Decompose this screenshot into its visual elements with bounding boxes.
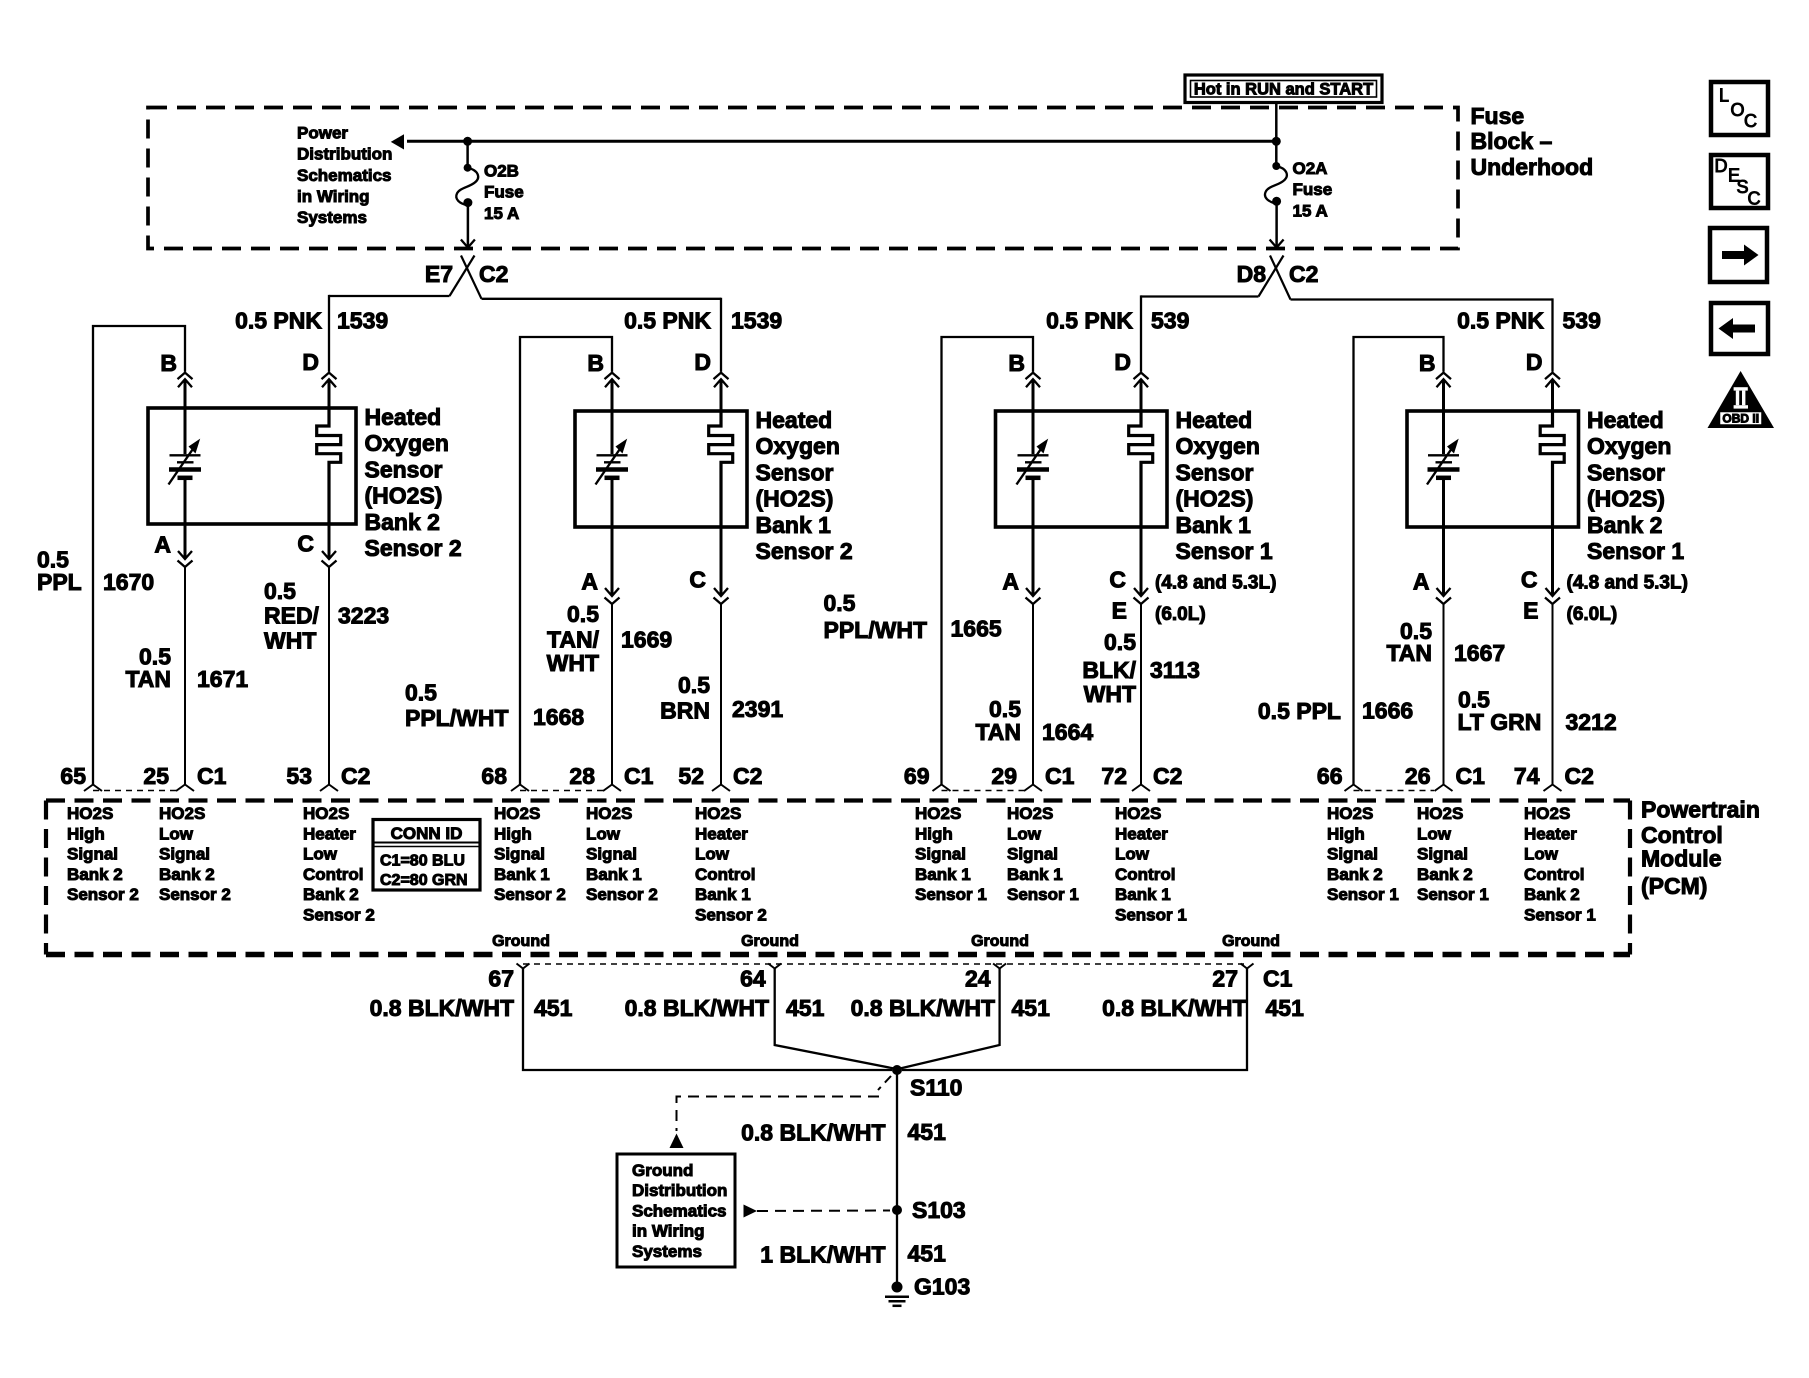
svg-text:Ground: Ground: [741, 933, 799, 950]
svg-text:(4.8 and 5.3L): (4.8 and 5.3L): [1155, 572, 1276, 593]
svg-text:PPL/WHT: PPL/WHT: [405, 705, 509, 731]
PCM pin 29 connector: [991, 763, 1074, 791]
PCM pin function text at x=1417: [1417, 804, 1489, 904]
svg-text:HO2S: HO2S: [1417, 804, 1463, 823]
svg-text:E: E: [1523, 598, 1538, 624]
svg-text:0.8 BLK/WHT: 0.8 BLK/WHT: [1102, 995, 1246, 1021]
svg-text:0.5 PPL: 0.5 PPL: [1258, 698, 1341, 724]
svg-text:539: 539: [1151, 308, 1189, 334]
Powertrain Control Module label: [1641, 797, 1760, 899]
PCM pin function text at x=586: [586, 804, 658, 904]
svg-text:Bank 1: Bank 1: [494, 865, 550, 884]
svg-text:D: D: [1526, 349, 1543, 375]
svg-text:S110: S110: [910, 1074, 962, 1100]
dashed reference box to S103: [744, 1205, 891, 1218]
icon LOC: [1711, 82, 1768, 135]
dashed link pin 69-29: [942, 790, 1025, 792]
wire 0.5 PNK 539 right branch to g4 D: [1291, 298, 1553, 371]
svg-text:Schematics: Schematics: [297, 166, 392, 185]
wire from Hot box to power line: [1275, 103, 1278, 142]
svg-text:1667: 1667: [1454, 640, 1505, 666]
terminal C group 1: [297, 524, 336, 785]
svg-text:O2A: O2A: [1293, 159, 1328, 178]
svg-text:Low: Low: [159, 824, 194, 843]
svg-text:Bank 1: Bank 1: [1007, 865, 1063, 884]
svg-text:in Wiring: in Wiring: [297, 187, 370, 206]
svg-text:C2: C2: [479, 261, 508, 287]
svg-text:(HO2S): (HO2S): [1587, 486, 1665, 512]
terminal B group 3: [1008, 350, 1040, 411]
svg-text:LT GRN: LT GRN: [1458, 709, 1542, 735]
svg-text:C1: C1: [197, 763, 227, 789]
sensor group 2 label: [756, 407, 853, 564]
svg-text:C: C: [689, 567, 706, 593]
svg-text:24: 24: [965, 966, 991, 992]
svg-text:Sensor 1: Sensor 1: [1007, 885, 1079, 904]
connector splice E7/C2: [425, 256, 509, 299]
svg-text:0.5: 0.5: [567, 601, 599, 627]
svg-text:0.5: 0.5: [264, 578, 296, 604]
svg-text:HO2S: HO2S: [1007, 804, 1053, 823]
svg-text:Sensor 2: Sensor 2: [494, 885, 566, 904]
svg-text:Bank 1: Bank 1: [756, 512, 832, 538]
terminal A group 3: [1002, 527, 1040, 785]
svg-text:Sensor 2: Sensor 2: [695, 906, 767, 925]
svg-text:72: 72: [1101, 763, 1127, 789]
svg-text:C1: C1: [624, 763, 654, 789]
dashed link pin 65-25: [93, 790, 176, 792]
svg-text:Bank 2: Bank 2: [1417, 865, 1473, 884]
icon left arrow: [1711, 303, 1768, 354]
svg-text:Sensor 1: Sensor 1: [1587, 538, 1684, 564]
fuse block underhood dashed box: [148, 108, 1458, 249]
terminal B group 2: [587, 350, 619, 411]
svg-text:TAN: TAN: [1386, 640, 1432, 666]
svg-text:Sensor 1: Sensor 1: [1524, 906, 1596, 925]
svg-text:PPL/WHT: PPL/WHT: [824, 617, 928, 643]
PCM pin function text at x=1115: [1115, 804, 1187, 925]
fuse O2A 15A: [1265, 141, 1287, 247]
svg-text:Heated: Heated: [1176, 407, 1253, 433]
svg-text:HO2S: HO2S: [695, 804, 741, 823]
svg-text:D8: D8: [1237, 261, 1267, 287]
svg-text:Heater: Heater: [1524, 824, 1577, 843]
wire S110 to S103: [896, 1070, 898, 1210]
HO2S sensor box group 4: [1407, 411, 1579, 527]
svg-text:451: 451: [908, 1240, 947, 1266]
HO2S sensor box group 2: [575, 411, 747, 527]
PCM pin 72 connector: [1101, 763, 1182, 791]
ground wire pin 24: [900, 969, 1000, 1069]
svg-text:68: 68: [481, 763, 507, 789]
svg-text:1671: 1671: [197, 666, 248, 692]
svg-text:HO2S: HO2S: [586, 804, 632, 823]
svg-text:Oxygen: Oxygen: [1587, 433, 1671, 459]
sensor element (variable cell) group 3: [1017, 411, 1050, 527]
label 0.5 PNK 1539 (g2): [624, 308, 782, 334]
svg-text:Hot in RUN and START: Hot in RUN and START: [1194, 81, 1373, 99]
svg-text:0.5: 0.5: [824, 590, 856, 616]
svg-text:67: 67: [488, 966, 514, 992]
svg-text:451: 451: [908, 1119, 947, 1145]
svg-text:Ground: Ground: [1222, 933, 1280, 950]
svg-text:BRN: BRN: [660, 697, 710, 723]
PCM pin function text at x=303: [303, 804, 375, 925]
svg-text:Bank 1: Bank 1: [695, 885, 751, 904]
PCM pin function text at x=67: [67, 804, 139, 904]
svg-text:C: C: [1744, 111, 1757, 131]
icon OBD II triangle: [1708, 371, 1775, 428]
Hot in RUN and START box: [1185, 75, 1382, 103]
svg-text:Signal: Signal: [586, 845, 637, 864]
svg-text:Low: Low: [303, 845, 338, 864]
PCM pin 25 connector: [143, 763, 226, 791]
svg-text:25: 25: [143, 763, 169, 789]
svg-text:HO2S: HO2S: [1115, 804, 1161, 823]
svg-text:C1: C1: [1456, 763, 1486, 789]
label 0.5 PPL/WHT 1668 (g2 high): [405, 680, 584, 731]
svg-text:O: O: [1731, 100, 1745, 120]
svg-text:C: C: [1748, 188, 1761, 208]
svg-text:HO2S: HO2S: [303, 804, 349, 823]
svg-text:Oxygen: Oxygen: [365, 430, 449, 456]
PCM dashed box: [46, 801, 1630, 955]
svg-text:Control: Control: [695, 865, 755, 884]
splice S110: [892, 1065, 962, 1100]
svg-text:A: A: [581, 569, 598, 595]
svg-text:Sensor 1: Sensor 1: [1417, 885, 1489, 904]
svg-text:Bank 1: Bank 1: [586, 865, 642, 884]
svg-text:Block –: Block –: [1471, 128, 1553, 154]
sensor element (variable cell) group 4: [1427, 411, 1460, 527]
svg-text:1668: 1668: [533, 704, 584, 730]
svg-text:C1: C1: [1045, 763, 1075, 789]
svg-text:0.8 BLK/WHT: 0.8 BLK/WHT: [370, 995, 514, 1021]
label 0.5 TAN/WHT 1669 (g2 low): [547, 601, 673, 676]
svg-text:0.5 PNK: 0.5 PNK: [235, 308, 322, 334]
svg-text:Distribution: Distribution: [632, 1181, 727, 1200]
svg-text:(HO2S): (HO2S): [756, 486, 834, 512]
svg-text:26: 26: [1405, 763, 1431, 789]
label 0.5 PNK 539 (g4): [1457, 308, 1601, 334]
svg-text:451: 451: [1012, 995, 1051, 1021]
svg-text:WHT: WHT: [264, 628, 316, 654]
wire 0.5 PNK 1539 right branch to g2 D: [482, 298, 722, 372]
svg-text:C2: C2: [341, 763, 370, 789]
icon DESC: [1711, 155, 1768, 208]
svg-text:0.5 PNK: 0.5 PNK: [1046, 308, 1133, 334]
svg-text:HO2S: HO2S: [159, 804, 205, 823]
svg-text:Fuse: Fuse: [1471, 103, 1525, 129]
svg-text:0.5: 0.5: [678, 672, 710, 698]
svg-text:(HO2S): (HO2S): [365, 483, 443, 509]
svg-text:27: 27: [1212, 966, 1238, 992]
label 0.5 PNK 1539 (g1): [235, 308, 388, 334]
label 0.5 BLK/WHT 3113 (g3 heater): [1082, 629, 1200, 707]
svg-text:Heated: Heated: [1587, 407, 1664, 433]
svg-text:High: High: [67, 824, 105, 843]
svg-text:Control: Control: [1641, 822, 1723, 848]
svg-text:Sensor: Sensor: [756, 459, 834, 485]
junction dot at O2A fuse tap: [1272, 137, 1281, 146]
svg-text:451: 451: [534, 995, 573, 1021]
svg-text:Low: Low: [586, 824, 621, 843]
svg-text:WHT: WHT: [547, 650, 599, 676]
terminal D group 1: [302, 349, 336, 408]
svg-text:15 A: 15 A: [1293, 201, 1328, 220]
PCM pin function text at x=1007: [1007, 804, 1079, 904]
svg-text:(HO2S): (HO2S): [1176, 486, 1254, 512]
wire S103 to G103: [896, 1210, 898, 1287]
sensor element (variable cell) group 1: [169, 408, 202, 524]
terminal B group 1: [160, 350, 192, 408]
svg-text:Underhood: Underhood: [1471, 154, 1594, 180]
signal high loop wire group 1: [93, 326, 185, 785]
svg-text:O2B: O2B: [484, 162, 519, 181]
svg-text:WHT: WHT: [1084, 681, 1136, 707]
PCM pin function text at x=695: [695, 804, 767, 925]
svg-text:Heated: Heated: [365, 404, 442, 430]
PCM pin 67 connector: [488, 964, 529, 992]
dashed link ground pins: [523, 963, 1247, 965]
svg-text:Bank 2: Bank 2: [1524, 885, 1580, 904]
svg-text:Bank 2: Bank 2: [67, 865, 123, 884]
sensor group 4 label: [1587, 407, 1684, 564]
svg-text:Low: Low: [1007, 824, 1042, 843]
svg-text:Signal: Signal: [915, 845, 966, 864]
svg-text:D: D: [1715, 156, 1728, 176]
svg-text:C1=80 BLU: C1=80 BLU: [380, 853, 465, 870]
wire 0.5 PNK 539 left branch to g3 D: [1141, 295, 1259, 371]
heater element group 3: [1129, 411, 1153, 527]
HO2S sensor box group 3: [996, 411, 1168, 527]
terminal B group 4: [1419, 350, 1451, 411]
ground wire pin 67: [523, 969, 892, 1071]
svg-text:Sensor 2: Sensor 2: [67, 885, 139, 904]
svg-text:451: 451: [786, 995, 825, 1021]
svg-text:Sensor 1: Sensor 1: [1176, 538, 1273, 564]
svg-text:Control: Control: [1115, 865, 1175, 884]
svg-text:Oxygen: Oxygen: [1176, 433, 1260, 459]
svg-text:Systems: Systems: [297, 208, 367, 227]
dashed reference S110 to ground distribution box: [670, 1076, 892, 1148]
svg-text:D: D: [694, 349, 711, 375]
svg-text:D: D: [302, 349, 319, 375]
label 0.5 RED/WHT 3223 (g1 heater): [264, 578, 389, 653]
sensor group 3 label: [1176, 407, 1273, 564]
PCM pin 28 connector: [569, 763, 653, 791]
label 0.8 BLK/WHT 451 (pin 24): [851, 995, 1050, 1021]
svg-text:Signal: Signal: [1417, 845, 1468, 864]
svg-text:High: High: [915, 824, 953, 843]
svg-text:539: 539: [1563, 308, 1601, 334]
svg-text:Signal: Signal: [494, 845, 545, 864]
heater element group 1: [317, 408, 341, 524]
label 0.5 TAN 1671 (g1 low): [125, 644, 248, 693]
svg-text:Bank 2: Bank 2: [365, 509, 440, 535]
svg-text:Sensor 2: Sensor 2: [159, 885, 231, 904]
label 0.8 BLK/WHT 451 (S110-S103): [741, 1119, 946, 1146]
signal high loop wire group 3: [942, 337, 1034, 785]
label 0.8 BLK/WHT 451 (pin 67): [370, 995, 573, 1021]
terminal A group 1: [154, 524, 192, 785]
svg-text:HO2S: HO2S: [1524, 804, 1570, 823]
svg-text:Heater: Heater: [303, 824, 356, 843]
svg-text:Distribution: Distribution: [297, 145, 392, 164]
PCM pin 53 connector: [286, 763, 370, 791]
svg-text:B: B: [1419, 350, 1436, 376]
svg-text:0.5: 0.5: [1104, 629, 1136, 655]
svg-text:HO2S: HO2S: [67, 804, 113, 823]
svg-text:High: High: [494, 824, 532, 843]
engine annotations group 3: [1155, 572, 1276, 625]
PCM pin function text at x=159: [159, 804, 231, 904]
Power Distribution Schematics note: [297, 124, 392, 227]
svg-text:C2: C2: [1153, 763, 1182, 789]
svg-text:(PCM): (PCM): [1641, 873, 1707, 899]
sensor element (variable cell) group 2: [596, 411, 629, 527]
svg-text:(6.0L): (6.0L): [1155, 604, 1206, 625]
dashed link pin 68-28: [520, 790, 603, 792]
svg-text:15 A: 15 A: [484, 204, 519, 223]
terminal A group 4: [1413, 527, 1451, 785]
svg-text:0.8 BLK/WHT: 0.8 BLK/WHT: [851, 995, 995, 1021]
svg-text:C: C: [297, 531, 314, 557]
CONN ID box: [373, 820, 480, 891]
svg-text:0.8 BLK/WHT: 0.8 BLK/WHT: [625, 995, 769, 1021]
svg-text:Fuse: Fuse: [484, 183, 524, 202]
svg-text:Signal: Signal: [1327, 845, 1378, 864]
svg-text:Power: Power: [297, 124, 348, 143]
svg-text:Control: Control: [303, 865, 363, 884]
fuse O2A label: [1293, 159, 1333, 220]
ground wire pin 64: [775, 969, 894, 1069]
label 0.5 LT GRN 3212 (g4 heater): [1458, 687, 1617, 735]
svg-text:Bank 2: Bank 2: [1587, 512, 1662, 538]
svg-text:1669: 1669: [621, 627, 672, 653]
junction dot at O2B fuse tap: [463, 137, 472, 146]
svg-text:Sensor 1: Sensor 1: [1115, 906, 1187, 925]
PCM pin 74 connector: [1514, 763, 1594, 791]
svg-text:C1: C1: [1263, 966, 1293, 992]
ground G103: [885, 1274, 970, 1306]
svg-text:Heater: Heater: [695, 824, 748, 843]
svg-text:3212: 3212: [1566, 709, 1617, 735]
PCM pin 24 connector: [965, 964, 1006, 992]
svg-text:2391: 2391: [732, 696, 783, 722]
svg-text:Ground: Ground: [492, 933, 550, 950]
svg-text:3223: 3223: [338, 603, 389, 629]
Fuse Block - Underhood label: [1471, 103, 1594, 180]
icon right arrow: [1710, 228, 1767, 282]
label 0.5 TAN 1664 (g3 low): [975, 696, 1093, 745]
label 0.5 PPL 1670 (g1 high): [37, 546, 154, 595]
engine annotations group 4: [1567, 572, 1688, 625]
svg-text:Sensor: Sensor: [1176, 459, 1254, 485]
svg-text:Sensor 2: Sensor 2: [365, 535, 462, 561]
svg-text:Sensor 2: Sensor 2: [756, 538, 853, 564]
svg-text:A: A: [1002, 569, 1019, 595]
svg-text:0.5 PNK: 0.5 PNK: [624, 308, 711, 334]
signal high loop wire group 2: [520, 337, 612, 785]
svg-text:0.8 BLK/WHT: 0.8 BLK/WHT: [741, 1120, 885, 1146]
label 0.5 PNK 539 (g3): [1046, 308, 1189, 334]
svg-text:3113: 3113: [1150, 657, 1200, 683]
svg-text:28: 28: [569, 763, 595, 789]
label 0.5 TAN 1667 (g4 low): [1386, 618, 1505, 666]
connector splice D8/C2: [1237, 256, 1319, 300]
svg-text:74: 74: [1514, 763, 1540, 789]
PCM pin 52 connector: [678, 763, 762, 791]
PCM pin 65 connector: [60, 763, 102, 791]
svg-text:53: 53: [286, 763, 312, 789]
svg-text:Low: Low: [1115, 845, 1150, 864]
svg-text:0.5: 0.5: [405, 680, 437, 706]
svg-text:C2=80 GRN: C2=80 GRN: [380, 872, 468, 889]
label 0.8 BLK/WHT 451 (pin 64): [625, 995, 825, 1021]
svg-text:TAN: TAN: [125, 666, 171, 692]
terminal D group 2: [694, 349, 728, 411]
svg-text:Module: Module: [1641, 845, 1722, 871]
svg-text:1539: 1539: [731, 308, 782, 334]
svg-text:C2: C2: [1289, 261, 1318, 287]
svg-text:Sensor 2: Sensor 2: [586, 885, 658, 904]
svg-text:BLK/: BLK/: [1082, 657, 1136, 683]
svg-text:B: B: [1008, 350, 1025, 376]
label 1 BLK/WHT 451 (S103-G103): [760, 1240, 946, 1267]
PCM bottom border (thicker): [46, 952, 1630, 957]
PCM pin function text at x=1524: [1524, 804, 1596, 925]
svg-text:Systems: Systems: [632, 1242, 702, 1261]
svg-text:C2: C2: [1565, 763, 1594, 789]
svg-text:66: 66: [1317, 763, 1343, 789]
svg-text:PPL: PPL: [37, 569, 82, 595]
power feed wire with left arrow: [391, 134, 1277, 149]
svg-text:in Wiring: in Wiring: [632, 1222, 705, 1241]
PCM pin function text at x=1327: [1327, 804, 1399, 904]
svg-text:Ground: Ground: [971, 933, 1029, 950]
svg-text:A: A: [1413, 569, 1430, 595]
PCM pin 64 connector: [740, 964, 781, 992]
svg-text:Heated: Heated: [756, 407, 833, 433]
svg-text:451: 451: [1266, 995, 1305, 1021]
svg-text:29: 29: [991, 763, 1017, 789]
svg-text:Bank 1: Bank 1: [915, 865, 971, 884]
svg-text:(6.0L): (6.0L): [1567, 604, 1618, 625]
label 0.8 BLK/WHT 451 (pin 27): [1102, 995, 1304, 1021]
svg-text:A: A: [154, 531, 171, 557]
svg-text:C: C: [1521, 567, 1538, 593]
sensor group 1 label: [365, 404, 462, 561]
terminal D group 4: [1526, 349, 1560, 411]
svg-text:Sensor 1: Sensor 1: [1327, 885, 1399, 904]
wire 0.5 PNK 1539 left branch to g1 D: [329, 295, 450, 372]
svg-text:Heater: Heater: [1115, 824, 1168, 843]
PCM pin 27 connector: [1212, 964, 1292, 992]
heater element group 2: [709, 411, 733, 527]
svg-text:1 BLK/WHT: 1 BLK/WHT: [760, 1241, 885, 1267]
svg-text:(4.8 and 5.3L): (4.8 and 5.3L): [1567, 572, 1688, 593]
svg-text:Signal: Signal: [67, 845, 118, 864]
svg-text:0.5 PNK: 0.5 PNK: [1457, 308, 1544, 334]
splice S103: [892, 1197, 966, 1223]
svg-text:Low: Low: [1524, 845, 1559, 864]
svg-text:Signal: Signal: [159, 845, 210, 864]
svg-text:Bank 2: Bank 2: [159, 865, 215, 884]
terminal A group 2: [581, 527, 619, 785]
svg-text:HO2S: HO2S: [915, 804, 961, 823]
svg-text:Ground: Ground: [632, 1161, 693, 1180]
